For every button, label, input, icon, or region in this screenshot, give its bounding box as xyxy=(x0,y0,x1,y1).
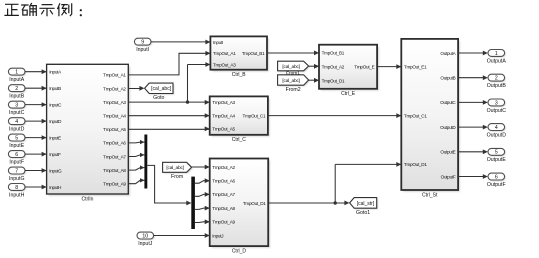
svg-text:OutputA: OutputA xyxy=(487,58,507,64)
svg-text:TmpOut_A3: TmpOut_A3 xyxy=(212,100,235,105)
svg-text:OutputF: OutputF xyxy=(487,182,506,188)
svg-text:3: 3 xyxy=(15,103,18,109)
svg-text:OutputA: OutputA xyxy=(440,51,456,56)
svg-text:6: 6 xyxy=(15,152,18,158)
svg-text:InputA: InputA xyxy=(9,77,25,83)
svg-text:TmpOut_A3: TmpOut_A3 xyxy=(213,62,236,67)
svg-text:TmpOut_E1: TmpOut_E1 xyxy=(404,64,427,69)
svg-text:6: 6 xyxy=(495,174,498,180)
svg-text:InputC: InputC xyxy=(9,110,25,116)
svg-text:TmpOut_C1: TmpOut_C1 xyxy=(404,113,427,118)
svg-text:TmpOut_C1: TmpOut_C1 xyxy=(243,113,266,118)
svg-text:TmpOut_A5: TmpOut_A5 xyxy=(212,127,235,132)
svg-text:5: 5 xyxy=(15,136,18,142)
svg-text:From: From xyxy=(171,174,183,180)
svg-text:4: 4 xyxy=(495,125,498,131)
svg-text:TmpOut_A2: TmpOut_A2 xyxy=(212,165,235,170)
svg-text:InputJ: InputJ xyxy=(212,233,223,238)
svg-text:9: 9 xyxy=(141,40,144,46)
svg-text:InputB: InputB xyxy=(9,94,25,100)
svg-text:TmpOut_D1: TmpOut_D1 xyxy=(243,201,266,206)
svg-text:OutputE: OutputE xyxy=(487,157,507,163)
svg-text:InputC: InputC xyxy=(49,102,62,107)
svg-text:InputF: InputF xyxy=(49,152,61,157)
svg-text:Ctrl_C: Ctrl_C xyxy=(232,137,247,143)
svg-text:OutputE: OutputE xyxy=(440,150,455,155)
svg-text:10: 10 xyxy=(142,233,148,239)
svg-text:TmpOut_D1: TmpOut_D1 xyxy=(322,78,345,83)
svg-text:TmpOut_A9: TmpOut_A9 xyxy=(103,182,126,187)
svg-text:[cal_abc]: [cal_abc] xyxy=(151,86,172,92)
svg-text:OutputB: OutputB xyxy=(487,83,507,89)
svg-text:TmpOut_A2: TmpOut_A2 xyxy=(322,64,345,69)
svg-text:[cal_abc]: [cal_abc] xyxy=(282,64,299,70)
svg-text:Goto: Goto xyxy=(153,95,164,101)
svg-text:InputJ: InputJ xyxy=(138,241,153,247)
svg-text:InputA: InputA xyxy=(49,70,62,75)
svg-text:TmpOut_A4: TmpOut_A4 xyxy=(103,114,126,119)
svg-text:OutputC: OutputC xyxy=(487,108,507,114)
svg-text:TmpOut_B1: TmpOut_B1 xyxy=(242,51,265,56)
svg-text:5: 5 xyxy=(495,150,498,156)
svg-text:1: 1 xyxy=(495,51,498,57)
svg-text:7: 7 xyxy=(15,168,18,174)
svg-text:Ctrl_E: Ctrl_E xyxy=(341,91,356,97)
svg-text:OutputF: OutputF xyxy=(441,174,456,179)
svg-text:InputB: InputB xyxy=(49,86,61,91)
svg-text:Goto1: Goto1 xyxy=(356,210,370,216)
svg-text:4: 4 xyxy=(15,119,18,125)
svg-text:TmpOut_A6: TmpOut_A6 xyxy=(103,141,126,146)
svg-text:[cal_abc]: [cal_abc] xyxy=(166,165,183,171)
svg-text:TmpOut_A7: TmpOut_A7 xyxy=(212,192,235,197)
svg-text:OutputC: OutputC xyxy=(440,100,456,105)
svg-text:TmpOut_A8: TmpOut_A8 xyxy=(103,168,126,173)
svg-text:TmpOut_A2: TmpOut_A2 xyxy=(103,86,126,91)
svg-text:InputD: InputD xyxy=(9,127,25,133)
svg-text:TmpOut_A9: TmpOut_A9 xyxy=(212,220,235,225)
svg-text:TmpOut_A5: TmpOut_A5 xyxy=(103,127,126,132)
svg-text:[cal_str]: [cal_str] xyxy=(357,201,375,207)
svg-text:2: 2 xyxy=(495,76,498,82)
svg-text:From2: From2 xyxy=(286,87,301,93)
svg-text:Ctrl_B: Ctrl_B xyxy=(232,72,247,78)
svg-text:TmpOut_A6: TmpOut_A6 xyxy=(212,179,235,184)
svg-text:TmpOut_A8: TmpOut_A8 xyxy=(212,206,235,211)
svg-text:TmpOut_E: TmpOut_E xyxy=(354,64,374,69)
svg-text:InputI: InputI xyxy=(213,40,223,45)
svg-text:InputH: InputH xyxy=(49,185,61,190)
svg-text:8: 8 xyxy=(15,185,18,191)
svg-text:TmpOut_A7: TmpOut_A7 xyxy=(103,154,126,159)
svg-text:[cal_abc]: [cal_abc] xyxy=(282,78,299,84)
svg-text:3: 3 xyxy=(495,100,498,106)
svg-text:Ctrl_St: Ctrl_St xyxy=(422,192,438,198)
svg-text:TmpOut_D1: TmpOut_D1 xyxy=(404,162,427,167)
svg-text:InputF: InputF xyxy=(9,160,24,166)
svg-text:InputG: InputG xyxy=(49,168,62,173)
svg-text:OutputB: OutputB xyxy=(440,76,455,81)
svg-text:Ctrl_D: Ctrl_D xyxy=(232,249,247,255)
svg-text:InputE: InputE xyxy=(49,135,61,140)
svg-text:OutputD: OutputD xyxy=(487,133,507,139)
svg-text:InputD: InputD xyxy=(49,119,62,124)
svg-text:InputG: InputG xyxy=(9,176,25,182)
svg-text:OutputD: OutputD xyxy=(440,125,456,130)
svg-text:TmpOut_B1: TmpOut_B1 xyxy=(322,51,345,56)
svg-text:InputE: InputE xyxy=(9,143,25,149)
svg-text:TmpOut_A3: TmpOut_A3 xyxy=(103,100,126,105)
svg-text:2: 2 xyxy=(15,86,18,92)
svg-text:InputI: InputI xyxy=(136,47,149,53)
svg-text:TmpOut_A4: TmpOut_A4 xyxy=(212,113,235,118)
svg-text:TmpOut_A1: TmpOut_A1 xyxy=(103,73,126,78)
svg-text:1: 1 xyxy=(15,70,18,76)
svg-text:CtrlIn: CtrlIn xyxy=(82,196,94,202)
svg-text:TmpOut_A1: TmpOut_A1 xyxy=(213,51,236,56)
svg-text:InputH: InputH xyxy=(9,192,25,198)
